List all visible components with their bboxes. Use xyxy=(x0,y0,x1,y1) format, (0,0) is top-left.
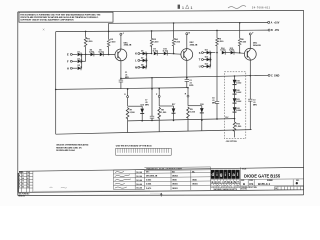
node terminal A +10V xyxy=(268,21,280,24)
wire mid rail xyxy=(56,88,188,90)
capacitor C4 xyxy=(212,53,219,120)
svg-text:UNLESS OTHERWISE INDICATED:: UNLESS OTHERWISE INDICATED: xyxy=(56,144,89,147)
svg-text:D12: D12 xyxy=(205,57,208,59)
wire diode chain top xyxy=(234,75,236,80)
svg-text:THIS SCHEMATIC IS FURNISHED ON: THIS SCHEMATIC IS FURNISHED ONLY FOR TES… xyxy=(20,13,101,16)
svg-text:D13: D13 xyxy=(205,63,208,65)
resistor R4 xyxy=(172,22,181,54)
svg-text:MFD: MFD xyxy=(145,104,150,106)
diode D16 xyxy=(140,104,144,121)
diode D14 xyxy=(220,47,230,55)
svg-text:C GND: C GND xyxy=(271,74,280,77)
svg-text:E: E xyxy=(212,180,214,184)
svg-text:24-7006-611: 24-7006-611 xyxy=(252,6,271,9)
svg-text:P: P xyxy=(224,180,226,184)
text component note xyxy=(56,144,89,152)
wire input cathode bus 2 xyxy=(146,53,148,68)
title block xyxy=(241,167,304,190)
node input pin L xyxy=(135,59,143,63)
wire bottom bus xyxy=(128,119,235,121)
svg-text:D-662: D-662 xyxy=(236,101,241,103)
resistor R8 xyxy=(158,106,174,121)
svg-text:MIL: MIL xyxy=(192,172,195,174)
pencil marks bottom xyxy=(50,187,67,188)
title strip bottom line xyxy=(18,190,304,193)
svg-text:M: M xyxy=(227,180,229,184)
svg-text:1,500: 1,500 xyxy=(190,112,196,114)
transistor Q2 xyxy=(181,42,198,60)
svg-text:D16: D16 xyxy=(141,104,144,106)
capacitor C1 xyxy=(119,61,130,89)
svg-text:D17: D17 xyxy=(172,104,175,106)
resistor R1 xyxy=(84,31,93,62)
etch board connector strip xyxy=(116,148,172,155)
svg-text:D-662: D-662 xyxy=(236,92,241,94)
node input pin K xyxy=(135,52,143,56)
svg-text:81: 81 xyxy=(22,184,24,186)
svg-text:D-662: D-662 xyxy=(236,83,241,85)
svg-text:E: E xyxy=(231,180,233,184)
node input pin T xyxy=(199,58,207,62)
svg-text:D-670: D-670 xyxy=(146,188,151,190)
resistor R5 xyxy=(216,30,225,54)
diode D12 xyxy=(205,57,211,62)
svg-text:-15V OPTION: -15V OPTION xyxy=(225,141,237,143)
resistor R9 xyxy=(187,106,202,121)
svg-text:E: E xyxy=(67,53,69,57)
svg-text:S: S xyxy=(199,51,201,55)
svg-text:10-2-64: 10-2-64 xyxy=(136,175,142,178)
svg-text:B155-0-1: B155-0-1 xyxy=(258,182,270,186)
svg-text:B: B xyxy=(243,182,245,186)
svg-text:ECO NO.: ECO NO. xyxy=(241,189,247,191)
capacitor C2 xyxy=(185,60,194,87)
svg-text:MFD: MFD xyxy=(253,105,258,107)
wire input cathode bus 1 xyxy=(81,54,83,69)
wire bottom rail xyxy=(56,130,252,135)
svg-text:90: 90 xyxy=(22,187,24,189)
dashed option box xyxy=(224,72,246,139)
title strip top line xyxy=(19,167,304,171)
node input pin U xyxy=(199,65,207,69)
diode D5 xyxy=(99,50,116,57)
notice box xyxy=(19,12,113,22)
svg-text:U: U xyxy=(218,180,220,184)
svg-text:D-662: D-662 xyxy=(99,52,104,54)
svg-text:3-6: 3-6 xyxy=(27,175,29,177)
diode D17 xyxy=(172,104,176,121)
diode D8 xyxy=(141,64,147,69)
capacitor C3 xyxy=(248,60,258,130)
node output pin D xyxy=(124,88,128,106)
svg-text:DIODE GATE B155: DIODE GATE B155 xyxy=(244,173,281,178)
node output pin J xyxy=(120,33,124,49)
diode D20 xyxy=(233,89,242,98)
svg-text:1: 1 xyxy=(182,6,184,10)
svg-text:9-9: 9-9 xyxy=(27,187,29,189)
wire sub3 diode to bottom rail xyxy=(201,120,203,131)
svg-text:TITLE: TITLE xyxy=(242,168,246,170)
svg-text:10-6-64: 10-6-64 xyxy=(136,187,142,190)
svg-text:B -15V: B -15V xyxy=(271,29,280,32)
node input pin M xyxy=(135,66,143,70)
margin ruler ticks xyxy=(35,190,149,193)
svg-text:1,500: 1,500 xyxy=(218,41,224,43)
ruler ticks extension xyxy=(151,193,159,194)
svg-text:10-5-64: 10-5-64 xyxy=(136,179,142,182)
svg-text:A +10V: A +10V xyxy=(271,22,280,25)
svg-text:Q: Q xyxy=(215,180,217,184)
svg-text:g: g xyxy=(220,172,223,177)
svg-text:E: E xyxy=(19,184,20,186)
svg-text:D-662: D-662 xyxy=(146,180,151,182)
node output pin P xyxy=(156,88,160,106)
diode D7 xyxy=(141,57,147,62)
svg-text:MFD: MFD xyxy=(212,102,217,104)
transistor Q1 xyxy=(115,42,132,61)
svg-text:2894-3B: 2894-3B xyxy=(190,43,198,46)
wire sub1 to bottom rail xyxy=(127,121,129,133)
svg-text:1,500: 1,500 xyxy=(161,112,167,114)
svg-text:7,500: 7,500 xyxy=(175,41,181,43)
svg-text:MFD: MFD xyxy=(189,85,194,87)
svg-text:COPYRIGHT 1964 BY DIGITAL EQUI: COPYRIGHT 1964 BY DIGITAL EQUIPMENT CORP… xyxy=(20,19,74,22)
resistor R7 xyxy=(126,106,142,121)
diode D9 xyxy=(153,49,164,56)
diode D21 xyxy=(233,98,242,107)
svg-text:DEC2894-3B: DEC2894-3B xyxy=(146,174,158,177)
diode D2 xyxy=(78,58,86,63)
svg-text:PRINTED CIRCUIT REV.: PRINTED CIRCUIT REV. xyxy=(241,187,257,189)
svg-text:DIODES ARE D-664: DIODES ARE D-664 xyxy=(56,149,75,152)
wire sub3 to bottom rail xyxy=(187,120,189,131)
diode D6 xyxy=(141,51,152,56)
svg-text:USE THE ETCH BOARD OF THE B155: USE THE ETCH BOARD OF THE B155 xyxy=(116,144,153,147)
node input pin E xyxy=(67,53,77,57)
wire input cathode bus 3 xyxy=(210,52,212,67)
transistor Q3 xyxy=(244,42,261,60)
svg-text:F: F xyxy=(19,187,20,189)
svg-text:DEC FORM NO: DEC FORM NO xyxy=(19,194,30,196)
svg-text:D18: D18 xyxy=(200,104,203,106)
svg-text:N: N xyxy=(234,180,236,184)
svg-text:d: d xyxy=(211,172,214,177)
diode D22 xyxy=(233,107,242,119)
wire ground line xyxy=(121,75,268,78)
capacitor C7 xyxy=(145,77,154,121)
svg-text:D-662: D-662 xyxy=(89,52,94,54)
node terminal B -15V xyxy=(268,29,279,32)
wire sub2 to bottom rail xyxy=(158,121,160,132)
wire -15V lower rail xyxy=(56,30,268,32)
svg-text:7,500: 7,500 xyxy=(110,42,116,44)
node input pin H xyxy=(67,66,77,70)
svg-text:U: U xyxy=(199,65,201,69)
diode D11 xyxy=(205,50,216,55)
diode D19 xyxy=(233,80,242,90)
svg-text:1N3606: 1N3606 xyxy=(172,184,178,186)
diode D3 xyxy=(78,65,82,70)
resistor R3 xyxy=(150,30,159,54)
svg-text:8-1: 8-1 xyxy=(27,178,29,180)
svg-text:MFD: MFD xyxy=(125,77,130,79)
node input pin S xyxy=(199,51,207,55)
svg-text:l: l xyxy=(237,172,238,177)
svg-text:RESISTORS ARE 1/4W; 5%: RESISTORS ARE 1/4W; 5% xyxy=(56,146,82,149)
DEC digital logo xyxy=(211,170,240,191)
svg-text:J: J xyxy=(123,33,124,35)
svg-text:H: H xyxy=(67,66,69,70)
pencil marks top xyxy=(43,5,271,31)
node output pin N xyxy=(186,32,191,48)
svg-text:1N3606: 1N3606 xyxy=(192,184,198,186)
node input pin F xyxy=(67,60,77,64)
wire +10V upper rail xyxy=(109,21,268,24)
node output pin R xyxy=(185,87,189,106)
svg-text:7,500: 7,500 xyxy=(241,41,247,43)
svg-text:CIRCUITS ARE PROPRIETARY IN NA: CIRCUITS ARE PROPRIETARY IN NATURE AND S… xyxy=(20,16,99,19)
svg-text:21: 21 xyxy=(22,175,24,177)
svg-text:K: K xyxy=(135,52,137,56)
svg-text:M: M xyxy=(135,66,137,70)
diode D15 xyxy=(229,48,244,55)
node terminal C GND xyxy=(268,74,280,77)
diode D10 xyxy=(163,49,181,56)
svg-text:CS: CS xyxy=(249,182,253,186)
svg-text:2894-3B: 2894-3B xyxy=(253,44,261,47)
resistor R6 xyxy=(238,22,247,54)
diode D1 xyxy=(78,51,86,56)
svg-text:70: 70 xyxy=(22,181,24,183)
conversion chart xyxy=(144,167,210,190)
revision table xyxy=(18,171,33,197)
svg-text:10-2-64: 10-2-64 xyxy=(136,171,142,174)
diode D13 xyxy=(205,63,211,68)
signature block xyxy=(113,170,144,190)
svg-text:1,500: 1,500 xyxy=(130,112,136,114)
svg-text:1,500: 1,500 xyxy=(153,41,159,43)
resistor R2 xyxy=(107,23,116,55)
node dot mid rail at left boundary xyxy=(55,89,57,91)
svg-text:i: i xyxy=(216,172,217,177)
diode D4 xyxy=(89,49,100,57)
svg-text:2894-3B: 2894-3B xyxy=(124,44,132,47)
svg-text:6-2: 6-2 xyxy=(27,184,29,186)
resistor R10 xyxy=(233,119,242,138)
svg-text:i: i xyxy=(225,172,226,177)
svg-text:1N3653: 1N3653 xyxy=(172,188,178,190)
sheet border frame xyxy=(18,10,304,195)
wire node to D4 xyxy=(86,53,91,55)
svg-text:1: 1 xyxy=(191,6,193,10)
svg-text:D11: D11 xyxy=(205,50,208,52)
svg-text:10-6-64: 10-6-64 xyxy=(136,183,142,186)
svg-text:D-662: D-662 xyxy=(236,110,241,112)
pencil arrow bottom xyxy=(160,193,162,196)
svg-text:1,500: 1,500 xyxy=(87,41,93,43)
svg-text:1,500: 1,500 xyxy=(236,126,242,128)
diode D18 xyxy=(200,104,204,121)
node output pin V xyxy=(249,33,254,49)
wire left boundary xyxy=(55,32,57,135)
